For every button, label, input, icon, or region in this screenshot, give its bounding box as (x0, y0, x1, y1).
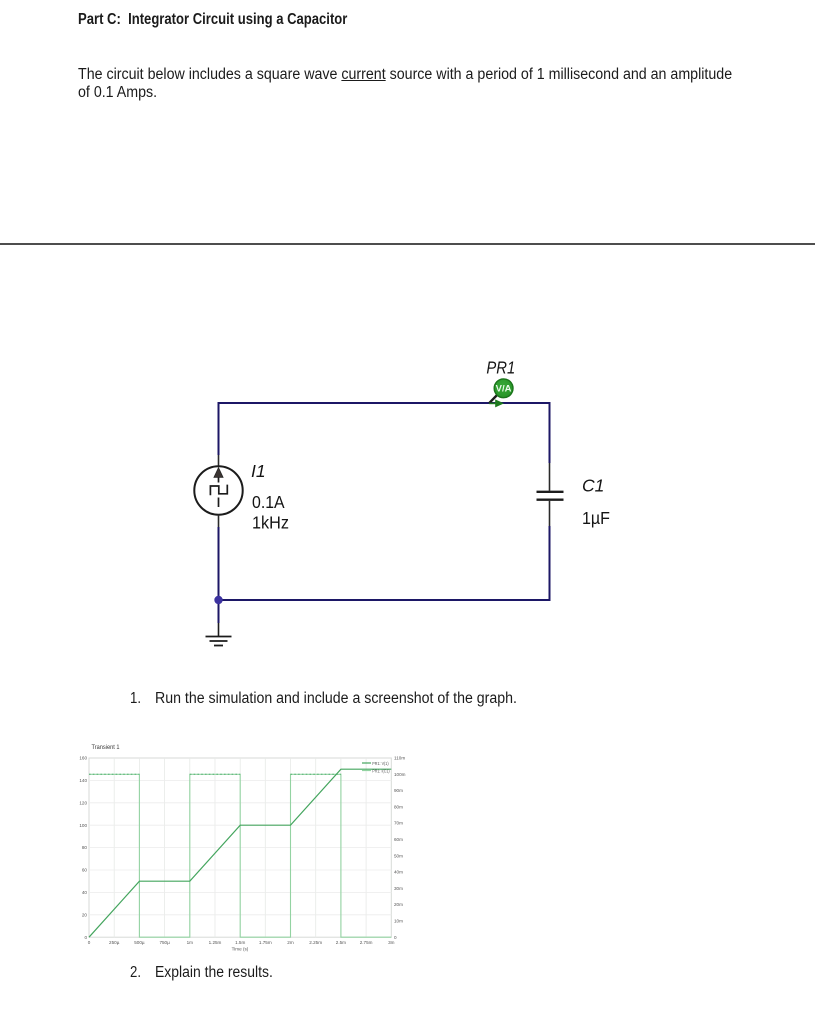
svg-text:100: 100 (79, 823, 87, 828)
svg-text:Time (s): Time (s) (232, 947, 249, 952)
svg-text:160: 160 (79, 756, 87, 761)
label PR1 (486, 358, 515, 378)
svg-text:2m: 2m (287, 940, 294, 945)
x axis title Time (s) (232, 947, 249, 952)
svg-text:0.1A: 0.1A (252, 492, 285, 512)
svg-text:0: 0 (88, 940, 91, 945)
svg-text:500µ: 500µ (134, 940, 145, 945)
capacitor C1 plates (537, 492, 564, 500)
trace PR1 I(C1) square wave (89, 774, 391, 937)
svg-text:2.25m: 2.25m (309, 940, 322, 945)
label I1 (251, 461, 266, 481)
list item 2 (130, 964, 141, 982)
svg-text:80m: 80m (394, 805, 403, 810)
svg-text:110m: 110m (394, 756, 405, 761)
legend (362, 761, 390, 774)
pin I1 bottom (218, 515, 220, 528)
svg-text:2.5m: 2.5m (336, 940, 346, 945)
pin C1 bottom (549, 501, 551, 526)
svg-text:1m: 1m (187, 940, 194, 945)
label 1kHz (252, 513, 289, 533)
svg-text:20: 20 (82, 912, 88, 917)
wire top horizontal (218, 402, 551, 404)
svg-text:C1: C1 (582, 476, 604, 496)
svg-text:PR1: PR1 (486, 358, 515, 378)
svg-text:10m: 10m (394, 919, 403, 924)
svg-text:1.75m: 1.75m (259, 940, 272, 945)
current source square-wave glyph (210, 485, 227, 496)
svg-text:PR1: I(C1): PR1: I(C1) (372, 768, 390, 773)
list item 1 (130, 690, 141, 708)
svg-text:1.25m: 1.25m (209, 940, 222, 945)
svg-text:50m: 50m (394, 853, 403, 858)
svg-text:250µ: 250µ (109, 940, 120, 945)
label 0.1A (252, 492, 285, 512)
svg-text:30m: 30m (394, 886, 403, 891)
wire right vertical lower (549, 526, 551, 601)
svg-text:PR1: V(1): PR1: V(1) (372, 761, 389, 766)
vertical gridlines (114, 758, 366, 937)
wire bottom horizontal (218, 599, 551, 601)
svg-text:40: 40 (82, 890, 88, 895)
ground symbol (206, 637, 232, 646)
label C1 (582, 476, 604, 496)
probe PR1 arrow (489, 399, 504, 407)
svg-text:140: 140 (79, 778, 87, 783)
wire left vertical lower (218, 527, 220, 601)
svg-text:Transient 1: Transient 1 (92, 744, 120, 751)
svg-text:90m: 90m (394, 788, 403, 793)
svg-text:3m: 3m (388, 940, 395, 945)
wire right vertical upper (549, 402, 551, 463)
label 1uF (582, 508, 610, 528)
trace I(C1) dotted overlay (89, 773, 341, 775)
wire left vertical upper (218, 402, 220, 455)
ground stem (218, 604, 220, 636)
horizontal gridlines (89, 780, 391, 914)
probe PR1 needle (489, 395, 497, 403)
svg-text:V/A: V/A (496, 384, 512, 395)
svg-text:60: 60 (82, 868, 88, 873)
y axis labels right (394, 756, 406, 940)
plot border (89, 758, 391, 937)
svg-text:60m: 60m (394, 837, 403, 842)
horizontal rule (0, 243, 815, 245)
pin C1 top (549, 463, 551, 491)
svg-text:20m: 20m (394, 902, 403, 907)
svg-text:750µ: 750µ (159, 940, 170, 945)
pin I1 top (218, 455, 220, 466)
current source I1 circle (194, 466, 242, 514)
x axis labels (88, 940, 395, 945)
svg-text:80: 80 (82, 845, 88, 850)
svg-text:1kHz: 1kHz (252, 513, 289, 533)
graph title Transient 1 (92, 744, 120, 751)
svg-text:120: 120 (79, 800, 87, 805)
current source arrow (214, 468, 223, 483)
trace PR1 V(1) ramp (89, 769, 391, 937)
paragraph (78, 66, 732, 103)
svg-text:I1: I1 (251, 461, 266, 481)
y axis labels left (79, 756, 87, 940)
svg-text:40m: 40m (394, 870, 403, 875)
probe PR1 circle (494, 379, 513, 398)
junction node dot (214, 596, 222, 604)
svg-text:70m: 70m (394, 821, 403, 826)
heading: Part C (78, 11, 347, 29)
svg-text:1µF: 1µF (582, 508, 610, 528)
current source dash (218, 498, 220, 508)
svg-text:100m: 100m (394, 772, 406, 777)
svg-text:1.5m: 1.5m (235, 940, 245, 945)
svg-text:2.75m: 2.75m (360, 940, 373, 945)
